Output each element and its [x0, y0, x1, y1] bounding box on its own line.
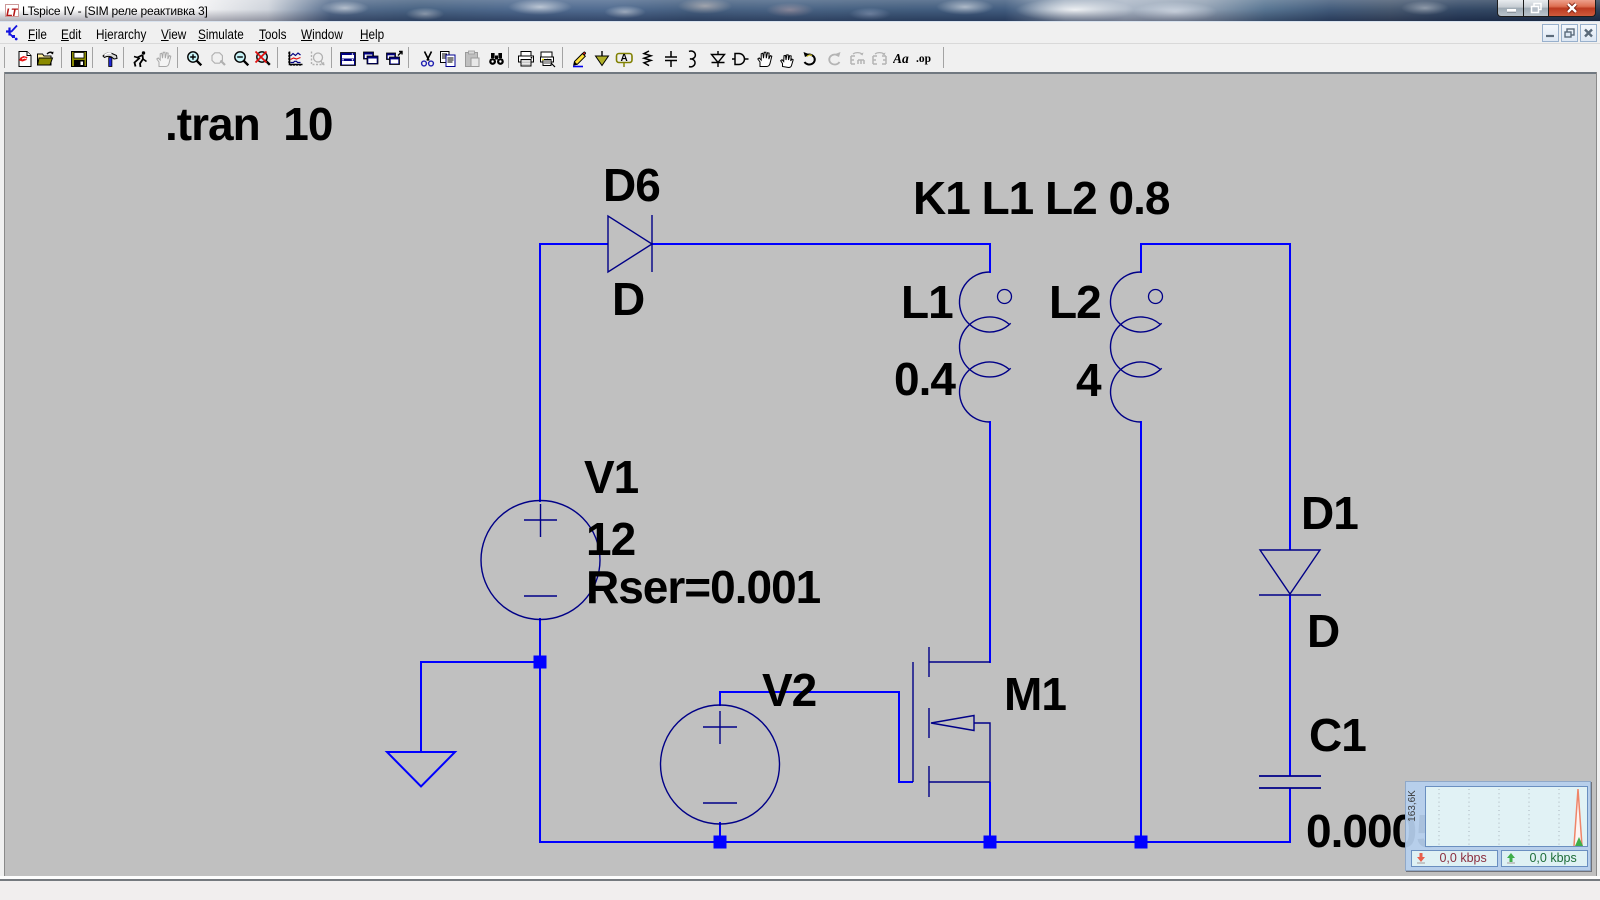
- inductor L1 winding: [959, 272, 1010, 422]
- svg-text:V1: V1: [584, 451, 639, 503]
- svg-text:4: 4: [1076, 354, 1102, 406]
- svg-text:L2: L2: [1049, 276, 1101, 328]
- svg-text:D6: D6: [603, 159, 660, 211]
- wire: [1141, 243, 1290, 245]
- ground: [387, 752, 455, 787]
- wire: [540, 243, 608, 245]
- junction node: [984, 836, 997, 849]
- diode D1: [1259, 550, 1321, 595]
- svg-text:D1: D1: [1301, 487, 1358, 539]
- TITLE BAR: [0, 0, 1600, 21]
- capacitor C1: [1259, 776, 1321, 788]
- svg-text:Rser=0.001: Rser=0.001: [586, 561, 821, 613]
- wire: [420, 661, 422, 752]
- voltage source V2: [661, 705, 780, 824]
- wire: [652, 243, 990, 245]
- wire: [539, 243, 541, 502]
- wire: [1289, 788, 1291, 842]
- svg-text:0.4: 0.4: [894, 353, 956, 405]
- wire: [989, 782, 991, 842]
- junction node: [714, 836, 727, 849]
- NET WIDGET: [1405, 781, 1591, 871]
- wire: [899, 781, 913, 783]
- svg-text:V2: V2: [762, 664, 816, 716]
- wire: [1140, 421, 1142, 842]
- wire: [1140, 243, 1142, 273]
- diode D6: [608, 215, 652, 272]
- svg-text:D: D: [612, 273, 644, 325]
- wire: [719, 822, 721, 842]
- svg-text:.tran 10: .tran 10: [165, 98, 332, 150]
- phase dot of L2: [1149, 290, 1163, 304]
- svg-text:C1: C1: [1309, 709, 1366, 761]
- svg-text:D: D: [1307, 605, 1339, 657]
- svg-text:K1 L1 L2 0.8: K1 L1 L2 0.8: [913, 172, 1170, 224]
- wire: [989, 243, 991, 273]
- wire: [421, 661, 540, 663]
- svg-text:L1: L1: [901, 276, 953, 328]
- wire: [1289, 243, 1291, 550]
- nmos transistor M1: [913, 647, 990, 797]
- inductor L2 winding: [1110, 272, 1161, 422]
- svg-text:M1: M1: [1004, 668, 1066, 720]
- phase dot of L1: [998, 290, 1012, 304]
- junction node: [534, 656, 547, 669]
- wire: [539, 841, 1291, 843]
- TOOLBAR: [0, 44, 1600, 72]
- wire: [719, 692, 721, 706]
- wire: [719, 691, 899, 693]
- wire: [539, 618, 541, 842]
- wire: [1289, 595, 1291, 776]
- junction node: [1135, 836, 1148, 849]
- svg-text:12: 12: [586, 513, 635, 565]
- voltage source V1: [481, 501, 600, 620]
- MENU BAR: [0, 21, 1600, 44]
- wire: [989, 421, 991, 663]
- wire: [898, 691, 900, 783]
